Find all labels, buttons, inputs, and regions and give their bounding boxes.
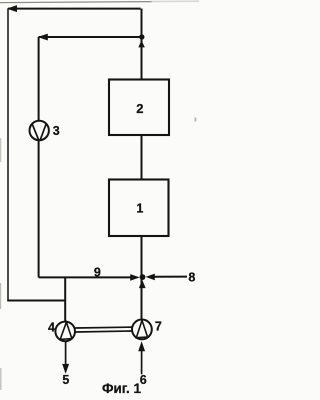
svg-text:7: 7	[155, 319, 162, 333]
svg-text:Фиг. 1: Фиг. 1	[102, 381, 142, 396]
svg-text:5: 5	[62, 373, 69, 387]
svg-text:2: 2	[136, 101, 143, 116]
svg-text:4: 4	[48, 321, 55, 335]
svg-text:9: 9	[94, 265, 101, 279]
svg-text:3: 3	[53, 124, 60, 138]
svg-text:1: 1	[136, 202, 143, 216]
svg-text:8: 8	[188, 270, 195, 284]
